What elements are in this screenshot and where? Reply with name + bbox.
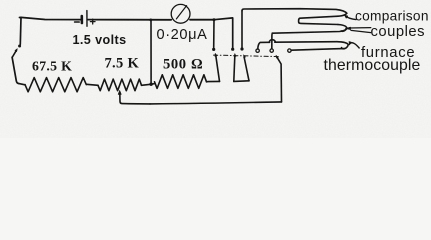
- svg-text:67.5 K: 67.5 K: [32, 58, 72, 73]
- svg-text:7.5 K: 7.5 K: [105, 55, 140, 71]
- svg-text:thermocouple: thermocouple: [324, 57, 421, 74]
- svg-text:0·20μA: 0·20μA: [157, 27, 208, 43]
- svg-text:500 Ω: 500 Ω: [163, 56, 203, 72]
- svg-text:comparison: comparison: [355, 8, 429, 23]
- svg-text:couples: couples: [371, 24, 426, 40]
- svg-text:1.5 volts: 1.5 volts: [73, 33, 127, 47]
